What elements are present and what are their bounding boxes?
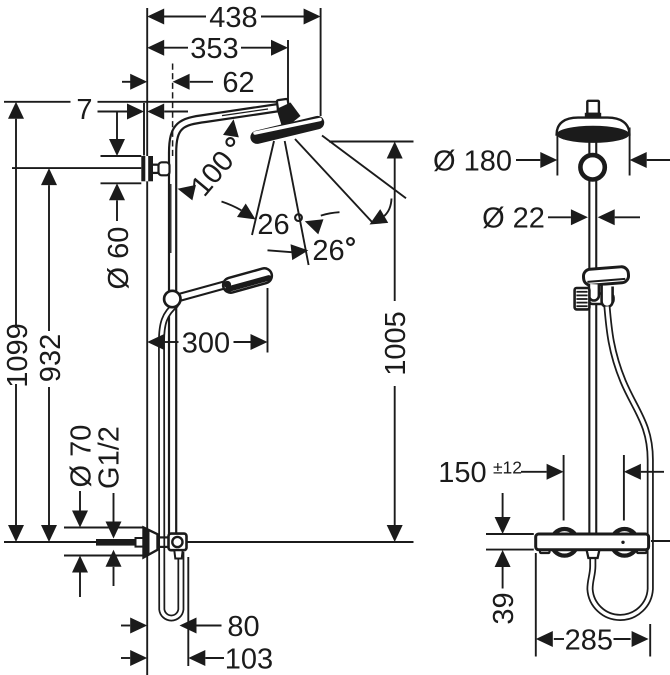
riser pipe (front view) xyxy=(588,124,597,537)
62 right arrow xyxy=(173,74,190,90)
overhead shower head (side view) xyxy=(249,114,326,145)
thermostat hose outlet xyxy=(587,550,600,558)
285 right extension line xyxy=(649,624,651,657)
G1/2 bottom arrow xyxy=(106,550,122,567)
supply connector tube xyxy=(153,164,168,175)
39 bottom reference line xyxy=(486,549,534,551)
spray line L2 (middle) xyxy=(285,141,309,265)
hose connection tail xyxy=(174,550,182,558)
285 right arrow xyxy=(632,631,649,647)
62 left arrow xyxy=(130,74,147,90)
300 left arrow xyxy=(147,334,164,350)
G1/2 top arrow xyxy=(106,522,122,539)
150 leader line xyxy=(521,471,547,473)
Ø180 left extension line xyxy=(556,134,558,176)
escutcheon highlight stripe xyxy=(145,156,148,181)
150 left extension line xyxy=(563,455,565,521)
hand shower joint dot xyxy=(224,281,231,288)
932 top arrow xyxy=(41,168,57,185)
1099 dimension line upper xyxy=(15,119,17,328)
100° arrow at arm xyxy=(223,118,241,137)
wall line (left of outlet) xyxy=(4,541,96,543)
head pivot block xyxy=(277,99,290,112)
300 right arrow xyxy=(251,334,268,350)
438 right extension line xyxy=(320,8,322,116)
438 dimension line right xyxy=(261,16,308,18)
26° upper left leader arc xyxy=(222,202,242,211)
knob rib 2 xyxy=(576,294,587,296)
pipe centerline (dashed) xyxy=(172,64,174,157)
holder prong left xyxy=(589,284,599,301)
slider holder ring xyxy=(164,291,180,307)
Ø60 bottom reference line xyxy=(101,182,142,184)
supply connector nut xyxy=(159,162,170,175)
285 left extension line xyxy=(535,553,537,657)
hose connection swivel circle xyxy=(172,537,182,547)
top reference line (left segment) xyxy=(4,101,71,103)
353 dimension line right xyxy=(241,47,274,49)
932 bottom arrow xyxy=(41,525,57,542)
knob rib 1 xyxy=(576,291,587,293)
svg-text:7: 7 xyxy=(76,94,92,126)
svg-text:353: 353 xyxy=(190,33,238,65)
39 top reference line xyxy=(486,533,534,535)
1099 dimension line lower xyxy=(15,384,17,525)
1005 top arrow xyxy=(387,142,403,159)
Ø180 right arrow xyxy=(630,152,647,168)
hand shower handle xyxy=(179,284,228,298)
Ø70 bottom arrow xyxy=(72,556,88,573)
spray line L4 (right) xyxy=(322,136,406,199)
top reference line (right segment to pivot) xyxy=(98,101,278,103)
shower riser pipe with top arm (left view) xyxy=(173,108,277,536)
Ø60 bottom arrow xyxy=(109,183,125,200)
Ø180 right extension line xyxy=(629,128,631,176)
escutcheon dark edge xyxy=(144,528,150,558)
26° lower right arrow xyxy=(366,209,389,231)
G1/2 dimension line lower xyxy=(113,567,115,586)
svg-text:±12: ±12 xyxy=(493,457,522,477)
80 right arrow xyxy=(180,618,197,634)
holder band xyxy=(589,294,614,305)
spray line L1 (left) xyxy=(252,141,274,235)
103 right extension line xyxy=(187,557,189,666)
thermostat left handle xyxy=(551,529,578,556)
degree circle of 100° xyxy=(226,138,234,146)
Ø22 right leader xyxy=(615,216,640,218)
hose connection block xyxy=(169,534,187,551)
1005 bottom arrow xyxy=(387,525,403,542)
285 dimension line right xyxy=(614,638,631,640)
932 top reference line (supply centerline) xyxy=(12,167,141,169)
1099 bottom arrow xyxy=(8,525,24,542)
head nub base xyxy=(585,113,601,118)
svg-text:39: 39 xyxy=(488,592,520,624)
7 dimension line xyxy=(98,111,128,113)
7 left arrow xyxy=(127,104,144,120)
svg-text:300: 300 xyxy=(182,327,230,359)
62 left tail xyxy=(122,81,131,83)
hand shower head xyxy=(221,267,273,295)
thermostat left foot xyxy=(540,547,550,554)
39 top arrow xyxy=(495,517,511,534)
Ø180 right leader xyxy=(647,159,670,161)
150 right extension line xyxy=(623,455,625,521)
hand shower hose (front view) xyxy=(590,307,650,618)
285 left arrow xyxy=(536,631,553,647)
26° lower right leader arc xyxy=(384,199,391,217)
svg-text:Ø 60: Ø 60 xyxy=(103,227,135,290)
438 dimension line left xyxy=(160,16,206,18)
thermostat marker dot xyxy=(621,541,624,544)
degree circle lower 26° xyxy=(347,238,354,245)
Ø70 dimension line upper xyxy=(79,491,81,511)
26° upper left arrow xyxy=(237,204,260,227)
spray line L3 xyxy=(295,139,373,224)
arm reflection line xyxy=(222,109,268,116)
Ø180 left leader xyxy=(516,159,540,161)
svg-text:Ø 22: Ø 22 xyxy=(482,203,545,235)
39 dimension line upper xyxy=(502,493,504,517)
thermostat right handle xyxy=(611,529,638,556)
438 right arrow xyxy=(304,9,321,25)
outlet escutcheon cone xyxy=(144,528,158,558)
G1/2 dimension line upper xyxy=(113,493,115,522)
svg-text:26: 26 xyxy=(257,209,289,241)
knob rib 3 xyxy=(576,298,587,300)
300 right extension line xyxy=(267,288,269,353)
Ø60 dimension line upper xyxy=(116,112,118,140)
300 dimension line right xyxy=(234,341,251,343)
svg-text:62: 62 xyxy=(222,67,254,99)
150 left arrow xyxy=(547,464,564,480)
upper wall supply escutcheon xyxy=(141,156,153,181)
wall plane extension line (left view) xyxy=(146,8,148,675)
overhead shower dome (front view) xyxy=(557,118,630,135)
head swivel cone xyxy=(277,103,301,131)
Ø70 dimension line lower xyxy=(79,573,81,598)
svg-text:1099: 1099 xyxy=(2,323,34,388)
thermostat body bar xyxy=(536,534,649,550)
Ø70 top reference line xyxy=(64,527,144,529)
svg-text:26: 26 xyxy=(312,235,344,267)
svg-text:438: 438 xyxy=(209,2,257,34)
knob rib 4 xyxy=(576,302,587,304)
7 right arrow xyxy=(147,104,164,120)
spray face disc (front view) xyxy=(557,126,630,143)
svg-text:1005: 1005 xyxy=(380,311,412,376)
svg-text:Ø 180: Ø 180 xyxy=(433,145,512,177)
Ø70 bottom reference line xyxy=(64,555,144,557)
438 left arrow xyxy=(147,9,164,25)
353 left arrow xyxy=(147,40,164,56)
svg-text:932: 932 xyxy=(35,334,67,382)
Ø22 left leader xyxy=(548,216,571,218)
7 right tail xyxy=(164,111,188,113)
103 right tail xyxy=(205,657,224,659)
103 left arrow xyxy=(130,650,147,666)
nipple collar square xyxy=(136,538,144,547)
39 dimension line lower xyxy=(502,567,504,589)
353 right arrow xyxy=(271,40,288,56)
outlet tube top edge xyxy=(158,536,171,538)
80 right tail xyxy=(197,625,222,627)
150 right tail xyxy=(641,471,664,473)
pipe collar ring xyxy=(580,155,604,179)
head top nub xyxy=(587,101,599,114)
wall line stub (right view) xyxy=(651,540,670,542)
103 right arrow xyxy=(188,650,205,666)
svg-text:G1/2: G1/2 xyxy=(93,426,125,489)
pipe reflection line xyxy=(170,184,172,253)
285 dimension line left xyxy=(554,638,564,640)
26° lower left leader xyxy=(268,250,292,252)
26° lower left arrow xyxy=(291,242,310,260)
353 right extension line xyxy=(287,40,289,102)
1099 top arrow xyxy=(8,102,24,119)
932 dimension line upper xyxy=(48,185,50,331)
thermostat right foot xyxy=(637,547,647,554)
G1/2 wall nipple xyxy=(96,539,136,546)
hand shower head (front view) xyxy=(583,266,629,285)
holder prong right xyxy=(602,286,613,308)
80 left arrow xyxy=(130,618,147,634)
hand shower hose (left view) xyxy=(162,304,181,618)
932 dimension line lower xyxy=(48,387,50,525)
wall line (right of outlet) xyxy=(187,541,414,543)
Ø22 left arrow xyxy=(571,209,588,225)
svg-text:80: 80 xyxy=(227,611,259,643)
300 dimension line left xyxy=(164,341,178,343)
svg-text:150: 150 xyxy=(438,457,486,489)
Ø60 top reference line xyxy=(101,155,142,157)
Ø60 top arrow xyxy=(109,139,125,156)
escutcheon face line (7 mm offset) xyxy=(143,103,145,156)
150 right arrow xyxy=(624,464,641,480)
353 dimension line left xyxy=(160,47,188,49)
100° arrow at pipe xyxy=(176,181,196,200)
Ø60 dimension line lower xyxy=(116,200,118,221)
1005 dimension line lower xyxy=(394,386,396,525)
svg-text:103: 103 xyxy=(225,644,273,675)
Ø70 top arrow xyxy=(72,511,88,528)
Ø180 left arrow xyxy=(540,152,557,168)
1005 dimension line upper xyxy=(394,159,396,302)
80 left tail xyxy=(121,625,130,627)
26° upper right arrow xyxy=(302,214,323,235)
knob rib 5 xyxy=(576,305,587,307)
Ø22 right arrow xyxy=(598,209,615,225)
outlet tube bottom edge xyxy=(158,546,171,548)
svg-text:285: 285 xyxy=(565,624,613,656)
1005 top reference line xyxy=(329,141,414,143)
62 right tail xyxy=(190,81,213,83)
26° upper right leader arc xyxy=(321,212,340,215)
slider clamp knob xyxy=(575,288,590,309)
103 left tail xyxy=(121,657,130,659)
degree circle upper 26° xyxy=(295,214,302,221)
39 bottom arrow xyxy=(495,550,511,567)
